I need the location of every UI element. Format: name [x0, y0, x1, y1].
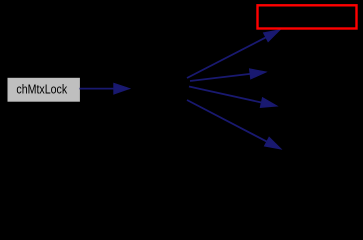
wire edge 3 — [189, 87, 277, 108]
node chMtxLock — [8, 78, 80, 102]
wire edge 4 — [187, 100, 281, 149]
wire edge to chSysLock (red node) — [187, 30, 280, 78]
node truncated (red outline) — [258, 5, 357, 28]
wire edge 2 — [190, 69, 266, 81]
svg-text:chMtxLock: chMtxLock — [16, 82, 67, 96]
wire edge chMtxLock to chMtxLockS — [80, 83, 130, 94]
